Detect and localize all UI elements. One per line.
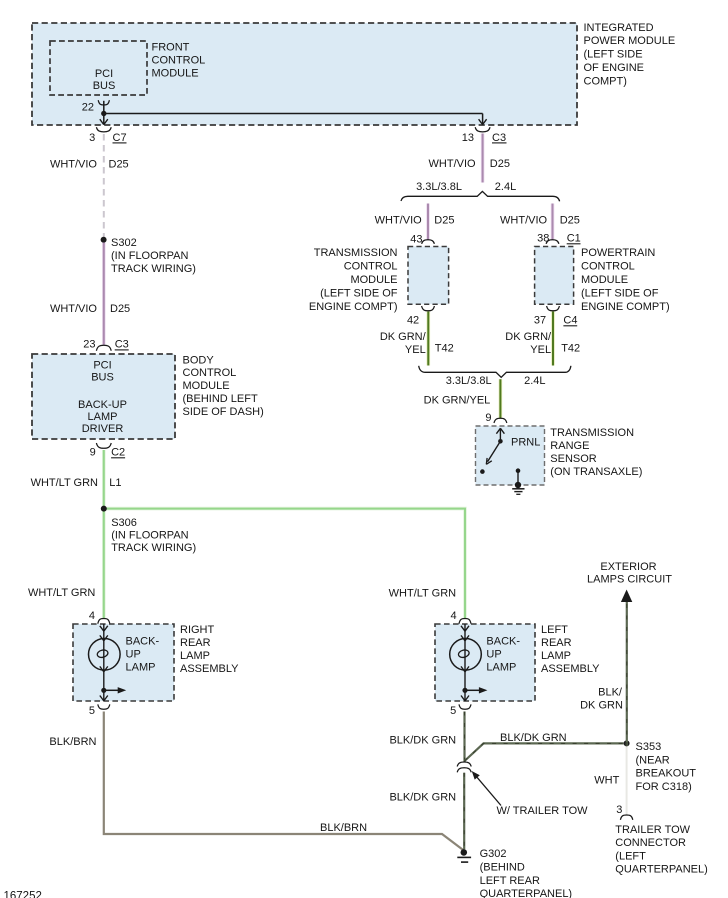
label WHT/VIO D25 (TCM) [375, 215, 455, 227]
wire WHT/VIO to PCM [551, 204, 555, 240]
wire BLK/DK GRN branch to S353 [465, 743, 624, 761]
label: transmission range sensor [550, 427, 642, 478]
svg-text:BLK/BRN: BLK/BRN [320, 822, 367, 834]
svg-text:LEFT REAR: LEFT REAR [480, 875, 540, 887]
range sensor internal ground [512, 468, 524, 494]
ground G302 [457, 848, 572, 898]
label DK GRN/YEL T42 (PCM) [505, 331, 580, 356]
svg-text:CONNECTOR: CONNECTOR [615, 837, 686, 849]
svg-text:CONTROL: CONTROL [152, 54, 206, 66]
wire BLK/DK GRN S353 up to exterior lamps [626, 601, 628, 746]
svg-text:5: 5 [89, 705, 95, 717]
label WHT/VIO D25 (left, above BCM) [50, 303, 130, 315]
svg-text:(LEFT SIDE OF: (LEFT SIDE OF [320, 287, 398, 299]
svg-text:D25: D25 [434, 215, 454, 227]
svg-text:TRANSMISSION: TRANSMISSION [314, 247, 398, 259]
svg-text:C1: C1 [567, 233, 581, 245]
svg-text:INTEGRATED: INTEGRATED [584, 22, 654, 34]
svg-text:L1: L1 [109, 477, 121, 489]
wire WHT S353 to trailer tow connector [626, 747, 628, 815]
svg-text:WHT/VIO: WHT/VIO [50, 159, 97, 171]
svg-text:(LEFT SIDE: (LEFT SIDE [584, 49, 643, 61]
wire: PCI bus inside IPM [100, 101, 487, 125]
svg-text:TRAILER TOW: TRAILER TOW [615, 824, 690, 836]
svg-text:S353: S353 [636, 741, 662, 753]
connector C3 pin 23 (BCM) [83, 339, 129, 351]
inline connector (w/ trailer tow) [457, 762, 471, 772]
lamp internal junction + branch arrow (left) [461, 687, 487, 701]
label WHT/LT GRN (right lamp) [28, 587, 95, 599]
label BLK/DK GRN (horizontal) [500, 732, 567, 744]
merge brace (engine variants) [419, 366, 571, 387]
label: integrated power module [584, 22, 676, 88]
svg-text:WHT/LT GRN: WHT/LT GRN [31, 477, 98, 489]
svg-text:S306: S306 [111, 517, 137, 529]
svg-text:QUARTERPANEL): QUARTERPANEL) [480, 888, 573, 898]
svg-text:13: 13 [462, 132, 474, 144]
lamp internal junction + branch arrow (right) [100, 687, 126, 701]
svg-text:WHT/LT GRN: WHT/LT GRN [28, 587, 95, 599]
svg-text:BACK-: BACK- [486, 636, 520, 648]
svg-text:D25: D25 [109, 159, 129, 171]
svg-text:POWERTRAIN: POWERTRAIN [581, 247, 655, 259]
svg-text:(IN FLOORPAN: (IN FLOORPAN [111, 530, 188, 542]
svg-text:MODULE: MODULE [183, 380, 230, 392]
label: exterior lamps circuit [587, 561, 672, 586]
svg-text:37: 37 [534, 315, 546, 327]
split brace (engine variants) [401, 181, 560, 202]
svg-text:C3: C3 [115, 339, 129, 351]
svg-text:YEL: YEL [530, 344, 551, 356]
svg-text:MODULE: MODULE [152, 67, 199, 79]
svg-text:BLK/DK GRN: BLK/DK GRN [500, 732, 567, 744]
svg-text:LAMPS CIRCUIT: LAMPS CIRCUIT [587, 574, 672, 586]
svg-text:38: 38 [537, 233, 549, 245]
svg-text:ENGINE COMPT): ENGINE COMPT) [309, 301, 398, 313]
wire WHT/VIO D25 S302 to BCM [102, 243, 106, 345]
label: trailer tow connector [615, 824, 708, 876]
connector pin 38 C1 (PCM) [537, 233, 581, 245]
front control module inner box (PCI BUS) [50, 41, 147, 95]
label WHT/LT GRN L1 [31, 477, 122, 489]
svg-text:LAMP: LAMP [486, 661, 516, 673]
svg-text:TRACK WIRING): TRACK WIRING) [111, 542, 196, 554]
integrated power module box [32, 23, 577, 125]
label DK GRN/YEL T42 (TCM) [380, 331, 454, 356]
svg-text:5: 5 [450, 705, 456, 717]
svg-text:WHT/VIO: WHT/VIO [375, 215, 422, 227]
svg-text:BACK-UP: BACK-UP [78, 399, 127, 411]
svg-text:MODULE: MODULE [350, 274, 397, 286]
svg-text:WHT/LT GRN: WHT/LT GRN [389, 587, 456, 599]
wire BLK/DK GRN left lamp down to inline connector [463, 712, 465, 763]
svg-text:WHT: WHT [594, 775, 619, 787]
svg-text:4: 4 [450, 610, 456, 622]
transmission control module box [408, 247, 449, 305]
label: left rear lamp assembly [541, 624, 600, 675]
annotation arrow w/ trailer tow [472, 771, 588, 817]
svg-text:RANGE: RANGE [550, 440, 589, 452]
svg-text:W/ TRAILER TOW: W/ TRAILER TOW [497, 805, 589, 817]
connector C7 pin 3 [89, 127, 126, 144]
svg-text:REAR: REAR [180, 637, 211, 649]
label WHT [594, 775, 619, 787]
wire DK GRN/YEL T42 (TCM) [426, 312, 430, 366]
svg-text:3.3L/3.8L: 3.3L/3.8L [416, 181, 462, 193]
junction node pin22 [101, 111, 106, 116]
svg-text:MODULE: MODULE [581, 274, 628, 286]
arrow to exterior lamps circuit [621, 590, 632, 603]
wire WHT/LT GRN L1 (BCM to S306) [102, 450, 106, 509]
svg-text:RIGHT: RIGHT [180, 624, 215, 636]
svg-text:ENGINE COMPT): ENGINE COMPT) [581, 301, 670, 313]
svg-text:BODY: BODY [183, 354, 215, 366]
svg-text:C2: C2 [111, 447, 125, 459]
wire DK GRN/YEL T42 (PCM) [551, 312, 555, 366]
wire DK GRN/YEL to range sensor [499, 379, 503, 418]
svg-text:22: 22 [82, 102, 94, 114]
svg-text:(IN FLOORPAN: (IN FLOORPAN [111, 250, 188, 262]
svg-text:BLK/: BLK/ [598, 687, 623, 699]
connector pin 4 (right lamp) [89, 610, 110, 624]
back-up lamp bulb (left) [450, 624, 521, 688]
svg-text:(BEHIND LEFT: (BEHIND LEFT [183, 393, 258, 405]
svg-text:TRACK WIRING): TRACK WIRING) [111, 263, 196, 275]
svg-text:CONTROL: CONTROL [581, 260, 635, 272]
svg-text:D25: D25 [110, 303, 130, 315]
svg-text:4: 4 [89, 610, 95, 622]
label BLK/DK GRN (lower) [389, 791, 456, 803]
pin 22 connector [82, 100, 110, 113]
svg-text:QUARTERPANEL): QUARTERPANEL) [615, 864, 708, 876]
connector pin 42 (TCM) [407, 306, 434, 327]
svg-text:DK GRN/YEL: DK GRN/YEL [424, 394, 491, 406]
label: transmission control module [309, 247, 398, 313]
svg-text:SENSOR: SENSOR [550, 453, 597, 465]
wire WHT/LT GRN to left rear lamp [104, 509, 465, 619]
svg-text:SIDE OF DASH): SIDE OF DASH) [183, 406, 264, 418]
body control module box [32, 354, 175, 439]
label WHT/LT GRN (left lamp) [389, 587, 456, 599]
label WHT/VIO D25 (PCM) [500, 215, 580, 227]
splice S306 [101, 506, 196, 555]
svg-text:T42: T42 [435, 343, 454, 355]
svg-text:COMPT): COMPT) [584, 75, 627, 87]
svg-text:S302: S302 [111, 237, 137, 249]
connector pin 3 (trailer tow) [616, 804, 633, 820]
connector pin 5 (right lamp) [89, 704, 110, 717]
connector C3 pin 13 (IPM) [462, 127, 507, 144]
wire WHT/LT GRN to right rear lamp [102, 509, 106, 619]
label BLK/DK GRN (at branch) [389, 734, 456, 746]
svg-text:BLK/DK GRN: BLK/DK GRN [389, 791, 456, 803]
label BLK/BRN (vertical) [49, 736, 96, 748]
svg-text:DK GRN/: DK GRN/ [505, 331, 552, 343]
svg-text:DRIVER: DRIVER [82, 423, 124, 435]
svg-text:167252: 167252 [4, 891, 42, 898]
svg-text:9: 9 [485, 412, 491, 424]
label: front control module [152, 41, 206, 79]
wire WHT/VIO D25 from C3 [481, 134, 485, 183]
svg-text:LAMP: LAMP [88, 411, 118, 423]
svg-text:C7: C7 [113, 132, 127, 144]
svg-text:3.3L/3.8L: 3.3L/3.8L [446, 375, 492, 387]
svg-text:DK GRN/: DK GRN/ [380, 331, 427, 343]
svg-text:BUS: BUS [91, 372, 114, 384]
right rear lamp assembly box [73, 624, 174, 701]
svg-text:ASSEMBLY: ASSEMBLY [541, 663, 600, 675]
svg-text:LEFT: LEFT [541, 624, 568, 636]
svg-text:D25: D25 [490, 158, 510, 170]
svg-text:23: 23 [83, 339, 95, 351]
svg-text:OF ENGINE: OF ENGINE [584, 62, 645, 74]
svg-text:(LEFT SIDE OF: (LEFT SIDE OF [581, 287, 659, 299]
label: body control module [183, 354, 264, 418]
wire WHT/VIO to TCM [426, 204, 430, 240]
wire BLK/DK GRN inline connector to G302 [463, 773, 465, 850]
connector pin 5 (left lamp) [450, 704, 471, 717]
svg-text:CONTROL: CONTROL [344, 260, 398, 272]
transmission range sensor box [476, 426, 545, 485]
svg-text:WHT/VIO: WHT/VIO [50, 303, 97, 315]
connector pin 37 C4 (PCM) [534, 306, 578, 327]
svg-text:PCI: PCI [95, 68, 113, 80]
svg-text:LAMP: LAMP [126, 661, 156, 673]
svg-text:REAR: REAR [541, 637, 572, 649]
connector pin 4 (left lamp) [450, 610, 471, 624]
label BLK/ DK GRN (right) [580, 687, 623, 712]
svg-text:LAMP: LAMP [180, 650, 210, 662]
label DK GRN/YEL (merged) [424, 394, 491, 406]
svg-text:DK GRN: DK GRN [580, 700, 623, 712]
svg-text:LAMP: LAMP [541, 650, 571, 662]
label: right rear lamp assembly [180, 624, 239, 675]
svg-text:2.4L: 2.4L [524, 375, 545, 387]
label BLK/BRN (horizontal) [320, 822, 367, 834]
svg-text:C3: C3 [492, 132, 506, 144]
wire WHT/VIO D25 (bus, dashed) C7 to S302 [103, 134, 105, 238]
svg-text:3: 3 [616, 804, 622, 816]
svg-text:42: 42 [407, 315, 419, 327]
connector pin 9 (range sensor) [485, 412, 506, 424]
svg-text:YEL: YEL [405, 344, 426, 356]
svg-text:PCI: PCI [93, 360, 111, 372]
label: powertrain control module [581, 247, 670, 313]
svg-text:BACK-: BACK- [126, 636, 160, 648]
svg-text:3: 3 [89, 132, 95, 144]
svg-text:(ON TRANSAXLE): (ON TRANSAXLE) [550, 466, 642, 478]
svg-text:ASSEMBLY: ASSEMBLY [180, 663, 239, 675]
svg-text:2.4L: 2.4L [495, 181, 516, 193]
svg-text:EXTERIOR: EXTERIOR [600, 561, 656, 573]
range sensor switch (PRNL) [480, 428, 540, 474]
svg-text:UP: UP [126, 648, 141, 660]
wire BLK/BRN right lamp to G302 [104, 712, 464, 851]
svg-text:CONTROL: CONTROL [183, 367, 237, 379]
svg-text:BLK/DK GRN: BLK/DK GRN [389, 734, 456, 746]
label WHT/VIO D25 (upper left) [50, 159, 129, 171]
svg-text:BUS: BUS [93, 80, 116, 92]
svg-text:FOR C318): FOR C318) [636, 781, 692, 793]
svg-text:(NEAR: (NEAR [636, 754, 670, 766]
svg-text:9: 9 [90, 447, 96, 459]
svg-text:WHT/VIO: WHT/VIO [429, 158, 476, 170]
svg-text:(BEHIND: (BEHIND [480, 862, 525, 874]
svg-text:UP: UP [486, 648, 501, 660]
splice S302 [101, 237, 196, 275]
connector pin 43 (TCM) [410, 234, 434, 246]
svg-text:WHT/VIO: WHT/VIO [500, 215, 547, 227]
powertrain control module box [535, 247, 574, 305]
svg-text:(LEFT: (LEFT [615, 850, 646, 862]
back-up lamp bulb (right) [89, 624, 160, 688]
svg-text:PRNL: PRNL [511, 436, 540, 448]
svg-text:POWER MODULE: POWER MODULE [584, 35, 676, 47]
svg-text:BREAKOUT: BREAKOUT [636, 768, 697, 780]
svg-text:C4: C4 [563, 315, 577, 327]
label WHT/VIO D25 (right top) [429, 158, 510, 170]
svg-text:43: 43 [410, 234, 422, 246]
svg-text:D25: D25 [560, 215, 580, 227]
connector C2 pin 9 [90, 443, 126, 459]
svg-text:BLK/BRN: BLK/BRN [49, 736, 96, 748]
svg-text:T42: T42 [561, 343, 580, 355]
svg-text:FRONT: FRONT [152, 41, 190, 53]
svg-text:G302: G302 [480, 848, 507, 860]
svg-text:TRANSMISSION: TRANSMISSION [550, 427, 634, 439]
splice S353 [624, 740, 697, 793]
figure number [4, 891, 42, 898]
left rear lamp assembly box [435, 624, 535, 701]
